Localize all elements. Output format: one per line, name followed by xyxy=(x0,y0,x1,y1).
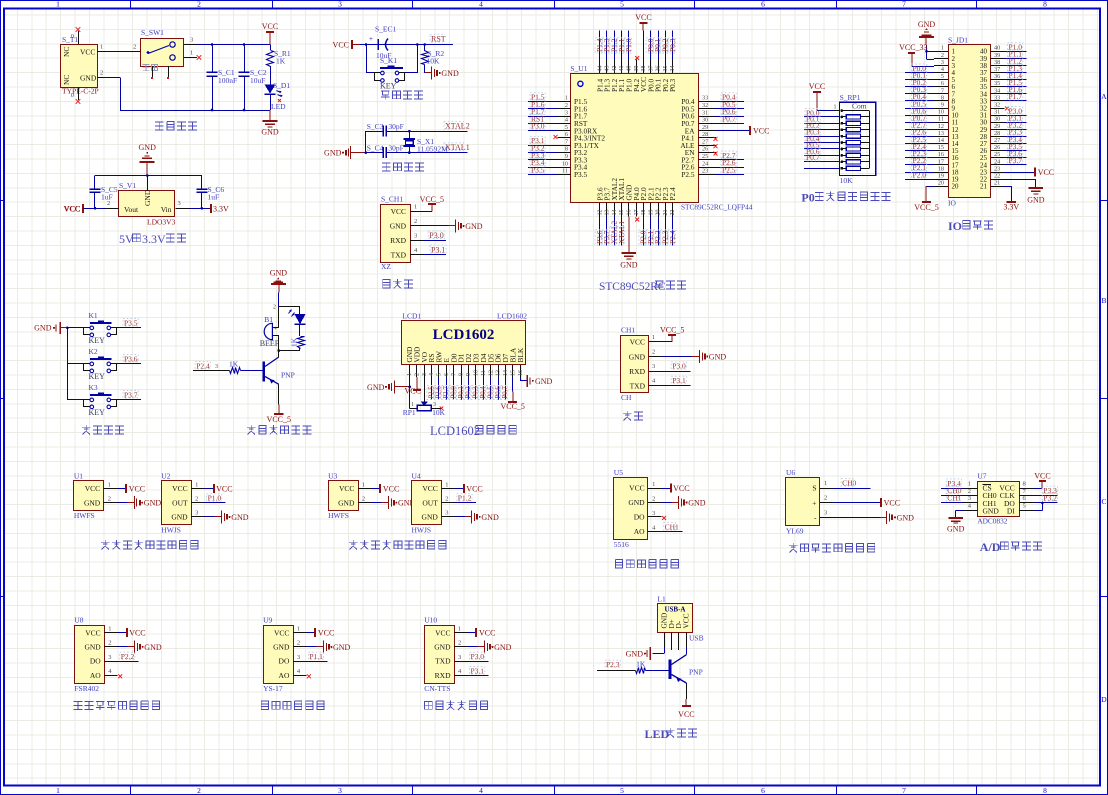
JD1 left pin 5 xyxy=(934,73,956,84)
svg-text:38: 38 xyxy=(994,59,1000,66)
svg-text:7: 7 xyxy=(565,138,568,145)
svg-text:GND: GND xyxy=(481,513,499,522)
svg-text:42: 42 xyxy=(612,66,618,72)
power VCC for RP1 xyxy=(809,82,840,111)
transistor PNP of alarm xyxy=(262,351,294,385)
svg-text:3: 3 xyxy=(565,109,568,116)
svg-text:32: 32 xyxy=(994,102,1000,109)
module U1 body xyxy=(74,472,104,521)
svg-text:22: 22 xyxy=(994,173,1000,180)
net label P3.0 XZ xyxy=(428,231,444,240)
svg-text:USB: USB xyxy=(689,634,704,643)
svg-text:VCC: VCC xyxy=(884,499,900,508)
svg-text:4: 4 xyxy=(565,117,568,124)
svg-text:35: 35 xyxy=(663,66,669,72)
svg-text:1K: 1K xyxy=(290,337,299,347)
svg-text:VCC: VCC xyxy=(682,613,691,628)
pin 3 of SW1 xyxy=(184,37,197,45)
power 3.3V at JD1 pin21 xyxy=(1003,186,1019,211)
module U3 body xyxy=(328,472,358,521)
svg-text:10K: 10K xyxy=(427,57,441,66)
JD1 net P0.2 xyxy=(905,78,934,87)
caption A/D转换电路 xyxy=(980,540,1042,554)
JD1 left pin 8 xyxy=(934,94,956,105)
svg-text:1: 1 xyxy=(411,402,414,408)
svg-text:5516: 5516 xyxy=(614,540,629,549)
pin 35 of U1 (P0.2) xyxy=(661,30,670,92)
svg-text:28: 28 xyxy=(702,131,708,138)
svg-text:+: + xyxy=(369,35,373,43)
svg-text:16: 16 xyxy=(938,151,944,158)
svg-text:LCD1: LCD1 xyxy=(402,312,421,321)
svg-text:27: 27 xyxy=(994,137,1000,144)
svg-text:GND: GND xyxy=(626,650,644,659)
LCD pin1 gnd wire xyxy=(367,377,411,408)
svg-text:13: 13 xyxy=(605,210,611,216)
svg-text:9: 9 xyxy=(941,102,944,109)
svg-text:1: 1 xyxy=(414,203,417,210)
svg-text:30pF: 30pF xyxy=(388,122,403,131)
svg-text:1: 1 xyxy=(100,44,103,51)
svg-text:XTAL1: XTAL1 xyxy=(617,221,626,244)
pin 21 of U1 (P2.3) xyxy=(661,187,670,245)
svg-text:3: 3 xyxy=(178,200,181,207)
JD1 left pin 19 xyxy=(934,173,959,184)
RP1 resistor 5 xyxy=(804,128,869,139)
caption 分离式红外开关模块 1 xyxy=(101,540,198,549)
svg-text:100nF: 100nF xyxy=(218,76,237,85)
svg-text:VCC_5: VCC_5 xyxy=(500,402,524,411)
svg-text:LDO3V3: LDO3V3 xyxy=(147,218,176,227)
pin 7 of U1 (P3.1/TX) xyxy=(528,136,600,150)
svg-text:17: 17 xyxy=(634,210,640,216)
alarm bottom wire xyxy=(277,349,299,352)
pin 40 of U1 (P1.0) xyxy=(624,30,633,92)
svg-text:3: 3 xyxy=(190,37,193,44)
module U4 pin 3 GND xyxy=(422,510,499,524)
caption 5V转3.3V电路 xyxy=(119,232,186,246)
svg-text:P3.5: P3.5 xyxy=(574,170,588,179)
svg-text:3: 3 xyxy=(414,233,417,240)
svg-text:GND: GND xyxy=(139,143,157,152)
svg-text:BLK: BLK xyxy=(516,347,525,362)
svg-text:Vout: Vout xyxy=(124,205,139,214)
pin 15 of U1 (XTAL1) xyxy=(617,178,626,246)
wire JD1 pin1 to GND xyxy=(927,51,935,53)
pin 1 of SW1 xyxy=(184,50,201,60)
U6 pin1 CH0 xyxy=(820,479,870,489)
L1 pin D+ xyxy=(671,633,673,651)
svg-text:S_K1: S_K1 xyxy=(380,56,397,65)
svg-text:VCC_5: VCC_5 xyxy=(420,195,444,204)
svg-text:VCC: VCC xyxy=(673,484,689,493)
svg-text:S_SW1: S_SW1 xyxy=(141,28,164,37)
caption 下载口 xyxy=(383,279,413,288)
svg-text:GND: GND xyxy=(34,324,52,333)
svg-text:28: 28 xyxy=(994,130,1000,137)
svg-text:15: 15 xyxy=(510,370,516,376)
svg-text:U9: U9 xyxy=(263,616,272,625)
svg-text:VCC: VCC xyxy=(635,13,651,22)
key trunk wire xyxy=(66,327,69,400)
connector T1 (TYPE-C-2P) xyxy=(61,35,99,96)
svg-text:VCC: VCC xyxy=(383,485,399,494)
svg-text:C: C xyxy=(1101,497,1106,506)
pin 23 of U1 (P2.5) xyxy=(681,165,744,179)
svg-text:YL69: YL69 xyxy=(786,527,804,536)
module U5 pin 4 AO xyxy=(634,523,683,537)
pin 16 of U1 (GND) xyxy=(620,185,638,270)
svg-text:S_CH1: S_CH1 xyxy=(381,195,403,204)
svg-text:GND: GND xyxy=(338,498,355,507)
caption STC89C52RC主芯片 xyxy=(599,281,686,293)
svg-text:2: 2 xyxy=(652,349,655,356)
svg-text:DO: DO xyxy=(279,657,290,666)
svg-text:VCC: VCC xyxy=(1038,168,1054,177)
svg-text:4: 4 xyxy=(429,373,435,376)
svg-text:2: 2 xyxy=(195,496,198,503)
svg-text:31: 31 xyxy=(994,109,1000,116)
svg-text:40: 40 xyxy=(994,45,1000,52)
JD1 left pin 11 xyxy=(934,116,959,127)
svg-text:KEY: KEY xyxy=(89,408,106,417)
ground GND alarm xyxy=(270,268,288,292)
svg-text:6: 6 xyxy=(565,131,568,138)
pin 10 of U1 (P3.4) xyxy=(528,158,588,172)
JD1 right pin 31 xyxy=(980,109,1005,120)
JD1 left pin 6 xyxy=(934,80,956,91)
LCD pin3 wiper xyxy=(421,377,428,406)
pin 38 of U1 (VCC) xyxy=(635,13,651,92)
svg-text:GND: GND xyxy=(84,498,101,507)
capacitor C3 xyxy=(366,122,404,137)
svg-text:GND: GND xyxy=(84,643,101,652)
module U4 body xyxy=(412,472,442,535)
svg-text:1K: 1K xyxy=(276,57,286,66)
svg-text:2: 2 xyxy=(297,640,300,647)
svg-text:2: 2 xyxy=(100,70,103,77)
module U2 pin 3 GND xyxy=(171,510,248,524)
svg-text:GND: GND xyxy=(422,513,439,522)
svg-text:U10: U10 xyxy=(424,616,437,625)
pin 44 of U1 (P1.4) xyxy=(595,30,604,92)
svg-text:21: 21 xyxy=(980,183,988,191)
svg-text:D: D xyxy=(1101,695,1107,704)
JD1 left pin 1 xyxy=(934,45,956,56)
svg-text:GND: GND xyxy=(897,513,915,522)
svg-text:4: 4 xyxy=(479,786,483,795)
svg-text:4: 4 xyxy=(479,0,483,9)
svg-text:VCC: VCC xyxy=(318,629,334,638)
module U10 pin 3 TXD xyxy=(435,652,488,666)
svg-text:GND: GND xyxy=(629,353,646,362)
JD1 left pin 12 xyxy=(934,123,959,134)
capacitor C4 xyxy=(367,144,404,159)
svg-text:9: 9 xyxy=(565,153,568,160)
JD1 right pin 32 xyxy=(980,102,1005,113)
svg-text:1: 1 xyxy=(652,334,655,341)
alarm emitter wire xyxy=(267,384,291,424)
svg-text:35: 35 xyxy=(994,80,1000,87)
JD1 net P0.1 xyxy=(905,71,934,80)
module U4 pin 1 VCC xyxy=(422,481,482,493)
pin 2 of T1 xyxy=(97,70,110,78)
svg-text:30pF: 30pF xyxy=(388,144,403,153)
U7 pin5 DI xyxy=(1019,503,1042,511)
svg-text:VCC: VCC xyxy=(753,127,769,136)
caption 复位电路 xyxy=(381,91,423,100)
JD1 net P3.3 xyxy=(1005,128,1027,137)
LCD pin 11 (D4) xyxy=(479,353,488,377)
svg-text:7: 7 xyxy=(941,87,944,94)
svg-text:3: 3 xyxy=(445,510,448,517)
svg-text:22: 22 xyxy=(670,210,676,216)
JD1 right pin 21 xyxy=(980,180,1005,191)
pin 17 of U1 (P4.0) xyxy=(632,187,641,222)
svg-text:GND: GND xyxy=(494,643,512,652)
caption 电源电路 xyxy=(155,122,197,130)
RP1 resistor 2 xyxy=(804,108,869,119)
svg-text:7: 7 xyxy=(902,786,906,795)
svg-text:1: 1 xyxy=(407,373,413,376)
svg-text:1: 1 xyxy=(190,50,193,57)
svg-text:U7: U7 xyxy=(977,472,986,481)
LED lamp emitter wire xyxy=(678,683,694,719)
JD1 pin 32 no connect xyxy=(1005,106,1009,110)
JD1 right pin 25 xyxy=(980,151,1005,162)
svg-text:12: 12 xyxy=(938,123,944,130)
regulator V1 (LDO3V3) xyxy=(119,181,176,227)
svg-text:VCC: VCC xyxy=(678,710,694,719)
svg-text:16: 16 xyxy=(518,370,524,376)
pushbutton K2 xyxy=(67,347,141,381)
pin 27 of U1 (ALE) xyxy=(680,138,717,149)
wire bottom rail of power circuit xyxy=(110,78,271,112)
JD1 net P3.1 xyxy=(1005,114,1027,123)
svg-text:6: 6 xyxy=(444,373,450,376)
svg-text:33: 33 xyxy=(702,95,708,102)
U7 pin3 CH1 xyxy=(941,493,978,502)
pin 12 of U1 (P3.6) xyxy=(595,187,604,245)
svg-text:31: 31 xyxy=(702,109,708,116)
connector CH1 (XZ download port) xyxy=(381,195,411,272)
JD1 right pin 34 xyxy=(980,87,1005,98)
ground GND below R2 xyxy=(425,67,459,80)
LCD pin 3 (VO) xyxy=(420,352,429,377)
module U5 body xyxy=(614,468,648,549)
svg-text:GND: GND xyxy=(171,513,188,522)
svg-text:GND: GND xyxy=(367,383,385,392)
JD1 left pin 4 xyxy=(934,66,956,77)
L1 pin VCC xyxy=(686,633,688,655)
JD1 net P1.2 xyxy=(1005,57,1027,66)
svg-text:3: 3 xyxy=(338,0,342,9)
LCD pin 5 (RW) xyxy=(435,351,444,377)
svg-text:1: 1 xyxy=(195,481,198,488)
module U8 pin 2 GND xyxy=(84,640,161,654)
JD1 net P1.5 xyxy=(1005,78,1027,87)
svg-text:3: 3 xyxy=(297,654,300,661)
svg-text:2: 2 xyxy=(445,496,448,503)
svg-text:YS-17: YS-17 xyxy=(263,684,283,693)
svg-text:GND: GND xyxy=(390,222,407,231)
svg-text:CH1: CH1 xyxy=(621,326,635,335)
svg-text:15: 15 xyxy=(938,144,944,151)
pin 11 of U1 (P3.5) xyxy=(528,165,588,179)
svg-text:A: A xyxy=(1101,92,1107,101)
JD1 net P2.5 xyxy=(905,135,934,144)
JD1 right pin 22 xyxy=(980,173,1005,184)
pin 42 of U1 (P1.2) xyxy=(609,30,618,92)
ground GND crystal xyxy=(324,146,366,159)
svg-text:3.3V: 3.3V xyxy=(142,232,166,246)
resistor 1K at base xyxy=(193,360,262,374)
svg-text:2: 2 xyxy=(824,495,827,502)
svg-text:U3: U3 xyxy=(328,472,337,481)
LCD wire P0.0 xyxy=(449,377,457,400)
power VCC reset circuit xyxy=(333,40,366,50)
svg-text:10K: 10K xyxy=(432,408,446,417)
wire SW1 pin3 to VCC rail xyxy=(197,43,270,46)
svg-text:DO: DO xyxy=(90,657,101,666)
pin 4 of U1 (RST) xyxy=(528,114,588,128)
svg-text:S_U1: S_U1 xyxy=(570,64,587,73)
svg-text:0: 0 xyxy=(71,92,74,99)
svg-text:GND: GND xyxy=(628,498,645,507)
pin 39 of U1 (P4.2) xyxy=(632,56,641,92)
JD1 left pin 13 xyxy=(934,130,959,141)
svg-text:1: 1 xyxy=(445,481,448,488)
LED D1 xyxy=(265,66,291,111)
svg-text:VCC: VCC xyxy=(64,204,80,213)
svg-text:VCC: VCC xyxy=(629,484,644,493)
svg-text:VCC: VCC xyxy=(630,338,645,347)
svg-text:VCC: VCC xyxy=(216,485,232,494)
svg-text:VCC: VCC xyxy=(466,485,482,494)
JD1 net P0.7 xyxy=(905,114,934,123)
L1 pin D- xyxy=(678,633,680,651)
net label RST xyxy=(430,34,446,43)
pin 3 of XZ xyxy=(410,233,446,241)
svg-text:VCC: VCC xyxy=(262,22,278,31)
pin 2 of V1 xyxy=(105,200,119,209)
caption 土壤湿度检测模块 xyxy=(789,543,875,552)
svg-text:14: 14 xyxy=(503,370,509,376)
svg-text:8: 8 xyxy=(1043,786,1047,795)
LCD pin 7 (D0) xyxy=(449,353,458,377)
power VCC_33 for JD1 pin3 xyxy=(899,43,934,66)
svg-text:2: 2 xyxy=(197,0,201,9)
U6 pin2 VCC xyxy=(820,495,900,508)
svg-text:1: 1 xyxy=(458,626,461,633)
RP1 resistor 6 xyxy=(804,134,869,145)
JD1 net P2.2 xyxy=(905,156,934,165)
U7 pin7 CLK xyxy=(1019,486,1057,495)
module U6 body xyxy=(786,468,820,536)
JD1 right pin 23 xyxy=(980,165,1005,176)
svg-text:44: 44 xyxy=(597,66,603,72)
svg-text:2: 2 xyxy=(108,496,111,503)
svg-text:9: 9 xyxy=(466,373,472,376)
svg-text:VCC_5: VCC_5 xyxy=(660,325,684,334)
pin 9 of U1 (P3.3) xyxy=(528,151,588,165)
pin 43 of U1 (P1.3) xyxy=(602,30,611,92)
svg-text:29: 29 xyxy=(994,123,1000,130)
svg-text:VCC: VCC xyxy=(333,41,349,50)
svg-text:3: 3 xyxy=(433,402,436,408)
svg-text:K2: K2 xyxy=(89,347,98,356)
svg-text:11: 11 xyxy=(562,168,568,175)
module U2 pin 2 OUT xyxy=(172,494,225,508)
pin 20 of U1 (P2.2) xyxy=(653,187,662,245)
svg-text:37: 37 xyxy=(994,66,1000,73)
svg-text:19: 19 xyxy=(648,210,654,216)
JD1 net P0.5 xyxy=(905,99,934,108)
ground GND at JD1 pin22 xyxy=(1005,179,1045,204)
svg-text:IO: IO xyxy=(948,199,956,208)
pin 6 of U1 (P4.3/INT2) xyxy=(554,131,606,142)
svg-text:11: 11 xyxy=(481,370,487,376)
svg-text:LED: LED xyxy=(645,727,670,741)
module U5 pin 2 GND xyxy=(628,495,705,509)
serial pin4 P3.1 xyxy=(649,376,691,385)
svg-text:5: 5 xyxy=(620,786,624,795)
module U8 pin 3 DO xyxy=(90,652,139,666)
capacitor C2 xyxy=(239,45,267,111)
svg-text:RXD: RXD xyxy=(435,671,451,680)
module U8 pin 4 AO xyxy=(90,668,122,680)
svg-text:VCC: VCC xyxy=(809,82,825,91)
JD1 left pin 10 xyxy=(934,109,959,120)
JD1 net P2.0 xyxy=(905,170,934,179)
svg-text:S_EC1: S_EC1 xyxy=(375,25,397,34)
JD1 left pin 17 xyxy=(934,158,959,169)
svg-text:18: 18 xyxy=(641,210,647,216)
svg-text:1: 1 xyxy=(824,480,827,487)
svg-text:GND: GND xyxy=(270,268,288,277)
svg-text:GND: GND xyxy=(688,499,706,508)
module U10 pin 2 GND xyxy=(434,640,511,654)
svg-text:3.3V: 3.3V xyxy=(213,204,229,213)
svg-text:10uF: 10uF xyxy=(250,76,265,85)
pin 36 of U1 (P0.1) xyxy=(653,30,662,92)
JD1 net P1.1 xyxy=(1005,50,1027,59)
svg-text:34: 34 xyxy=(670,66,676,72)
svg-text:GND: GND xyxy=(144,643,162,652)
JD1 net P2.6 xyxy=(905,128,934,137)
connector CH1 (serial) xyxy=(621,326,649,402)
pin 26 of U1 (EN) xyxy=(685,146,718,157)
svg-text:LCD1602: LCD1602 xyxy=(430,424,480,438)
wire top rail of LDO circuit xyxy=(95,174,202,177)
module U9 pin 1 VCC xyxy=(274,626,334,638)
svg-text:5: 5 xyxy=(941,73,944,80)
svg-text:VCC: VCC xyxy=(435,628,450,637)
svg-text:5V: 5V xyxy=(119,232,134,246)
svg-text:GND: GND xyxy=(947,525,965,534)
svg-text:VCC: VCC xyxy=(479,629,495,638)
svg-text:IO: IO xyxy=(948,219,962,233)
module U9 pin 4 AO xyxy=(279,668,311,680)
module U2 pin 1 VCC xyxy=(172,481,232,493)
svg-text:L1: L1 xyxy=(657,594,666,603)
svg-text:29: 29 xyxy=(702,124,708,131)
svg-text:AO: AO xyxy=(90,671,101,680)
module U10 body xyxy=(424,616,454,693)
svg-text:1: 1 xyxy=(565,95,568,102)
ground GND keys xyxy=(34,322,67,334)
power VCC top of power circuit xyxy=(262,22,278,45)
